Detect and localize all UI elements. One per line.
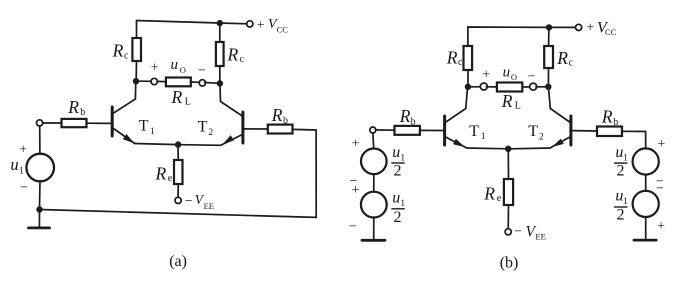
svg-text:2: 2: [208, 128, 213, 138]
transistor T1 (a) emitter lead: [113, 128, 135, 144]
svg-text:R: R: [271, 105, 283, 125]
svg-text:u: u: [392, 190, 400, 207]
source u1/2 upper right (b): [633, 148, 659, 174]
resistor RL (b): [497, 83, 522, 92]
svg-text:L: L: [185, 97, 191, 108]
svg-text:u: u: [503, 64, 511, 80]
wire: base T2 to Rb right (a): [244, 128, 268, 130]
wire: tail node to Re (b): [507, 152, 509, 179]
svg-text:u: u: [392, 144, 400, 161]
resistor Re (a): [174, 160, 183, 184]
transistor T2 (b) base bar: [569, 116, 572, 145]
source u1 (a): [26, 154, 54, 182]
svg-text:c: c: [458, 57, 463, 68]
wire: Rc left to collector node (b): [467, 70, 469, 84]
svg-text:R: R: [399, 106, 411, 126]
source u1/2 lower left (b): [361, 192, 387, 218]
node: collector T1 (a) junction dot: [133, 78, 139, 84]
source u1/2 lower right (b): [633, 191, 659, 217]
supply terminal −VEE (a): [175, 197, 181, 203]
power terminal +VCC (a): [247, 21, 253, 27]
power terminal +VCC (b): [576, 24, 582, 30]
svg-text:2: 2: [617, 163, 625, 180]
transistor T2 (a) base bar: [241, 112, 244, 143]
svg-text:−: −: [656, 182, 664, 197]
wire: terminal to Rb left (b): [376, 129, 395, 131]
svg-text:e: e: [168, 173, 173, 184]
svg-text:R: R: [501, 91, 513, 111]
svg-text:+: +: [657, 219, 665, 234]
svg-text:R: R: [171, 87, 183, 107]
svg-text:CC: CC: [277, 24, 289, 34]
output terminal + (a): [151, 78, 157, 84]
output terminal − (a): [199, 80, 205, 86]
svg-text:(b): (b): [500, 255, 519, 272]
svg-text:T: T: [139, 117, 149, 134]
svg-text:T: T: [198, 118, 208, 135]
wire: Rb left to base T1 (a): [87, 122, 111, 124]
svg-text:+: +: [586, 20, 594, 35]
transistor T1 (b) emitter lead: [445, 137, 466, 148]
svg-text:EE: EE: [535, 231, 545, 241]
svg-text:c: c: [124, 50, 129, 61]
svg-text:O: O: [180, 65, 186, 75]
svg-text:T: T: [469, 123, 479, 140]
svg-text:e: e: [497, 193, 502, 204]
wire: (a) bottom rail: [40, 210, 317, 218]
wire: + terminal to RL (a): [157, 80, 166, 82]
wire: between left sources (b): [373, 174, 375, 192]
svg-text:CC: CC: [605, 27, 617, 37]
svg-text:c: c: [569, 58, 574, 69]
resistor RL (a): [166, 78, 191, 87]
node: collector T1 (b) junction dot: [465, 84, 471, 90]
junction dot at top of Rc right (b): [546, 24, 552, 30]
wire: collector node to + output terminal (a): [139, 80, 152, 82]
resistor Rc right (a): [216, 42, 224, 66]
transistor T2 (a) emitter lead: [221, 135, 243, 146]
wire: − terminal to collector node T2 (b): [536, 86, 546, 88]
wire: Re to −VEE terminal (a): [177, 184, 179, 197]
wire: terminal down to source stack left (b): [372, 133, 375, 149]
svg-text:EE: EE: [204, 201, 214, 211]
transistor T2 (b) collector lead: [549, 90, 571, 123]
supply terminal −VEE (b): [505, 229, 511, 235]
resistor Re (b): [504, 179, 513, 205]
wire: base T2 to Rb right (b): [572, 130, 597, 132]
ground (b right): [634, 239, 656, 242]
svg-text:2: 2: [394, 163, 402, 180]
resistor Rc left (b): [464, 46, 473, 70]
svg-text:−: −: [198, 64, 206, 79]
transistor T1 (b) collector lead: [445, 90, 467, 123]
wire: top of Rc right (b): [548, 28, 550, 47]
svg-text:b: b: [613, 117, 618, 128]
svg-text:−: −: [514, 225, 522, 240]
wire: Rb left to base T1 (b): [420, 129, 443, 131]
wire: top of Rc right (a): [219, 23, 221, 42]
wire: Rc left to collector node (a): [135, 61, 137, 78]
wire: collector node to + terminal (b): [471, 86, 481, 88]
svg-text:R: R: [112, 41, 124, 61]
svg-text:+: +: [19, 143, 27, 158]
svg-text:R: R: [67, 97, 79, 117]
svg-text:R: R: [556, 48, 568, 68]
transistor T1 (b) base bar: [443, 116, 446, 145]
transistor T1 (a) collector lead: [113, 84, 136, 113]
svg-text:O: O: [511, 72, 517, 82]
svg-text:R: R: [227, 44, 239, 64]
wire: + terminal to RL (b): [486, 86, 497, 88]
wire: input terminal down to source u1 (a): [39, 126, 41, 154]
svg-text:u: u: [10, 155, 18, 174]
transistor T2 (b) emitter arrow: [552, 139, 564, 147]
svg-text:(a): (a): [169, 253, 187, 270]
svg-text:+: +: [352, 183, 360, 198]
output terminal + (b): [480, 83, 487, 90]
svg-text:b: b: [80, 107, 85, 118]
svg-text:−: −: [349, 219, 357, 234]
node: collector T2 (b) junction dot: [545, 84, 551, 90]
wire: input terminal to Rb left (a): [43, 122, 62, 124]
resistor Rb left (a): [62, 119, 87, 127]
node: bottom junction dot (a): [36, 206, 42, 212]
svg-text:R: R: [483, 184, 495, 204]
svg-text:b: b: [283, 116, 288, 127]
svg-text:2: 2: [617, 206, 625, 223]
wire: emitter T2 to tail node (a): [181, 144, 221, 147]
resistor Rb left (b): [395, 126, 420, 135]
svg-text:+: +: [151, 61, 159, 76]
transistor T1 (a) base bar: [111, 107, 114, 136]
resistor Rc right (b): [544, 46, 553, 68]
svg-text:L: L: [515, 101, 521, 112]
svg-text:R: R: [155, 164, 167, 184]
resistor Rb right (b): [597, 127, 622, 137]
svg-text:+: +: [657, 137, 665, 152]
svg-text:b: b: [411, 116, 416, 127]
resistor Rb right (a): [268, 125, 293, 134]
transistor T1 (a) emitter arrow: [123, 134, 135, 143]
wire: lower source to ground (b right): [645, 217, 647, 239]
svg-text:−: −: [185, 194, 193, 209]
wire: between right sources (b): [645, 175, 647, 191]
svg-text:1: 1: [150, 127, 155, 137]
svg-text:2: 2: [539, 132, 544, 142]
svg-text:+: +: [257, 18, 265, 33]
wire: Rb right down the right side (a): [293, 129, 317, 217]
svg-text:T: T: [528, 123, 538, 140]
wire: Re to −VEE terminal (b): [507, 205, 509, 229]
svg-text:R: R: [601, 106, 613, 126]
input terminal left (b): [370, 127, 376, 133]
svg-text:R: R: [446, 48, 458, 68]
wire: emitter T1 to tail node (a): [135, 144, 178, 145]
ground (b left): [362, 239, 385, 242]
output terminal − (b): [530, 83, 537, 90]
svg-text:c: c: [240, 54, 245, 65]
node: tail junction dot (a): [175, 141, 181, 147]
source u1/2 upper left (b): [361, 149, 387, 175]
svg-text:1: 1: [400, 199, 405, 209]
wire: (a) top rail: [137, 21, 247, 39]
transistor T2 (b) emitter lead: [550, 137, 570, 148]
wire: RL to − terminal (a): [191, 81, 199, 83]
wire: Rc right to collector node (b): [547, 68, 549, 84]
svg-text:u: u: [171, 57, 179, 73]
wire: tail node to Re (a): [177, 148, 179, 161]
junction dot at top of Rc right (a): [217, 20, 223, 26]
node: collector T2 (a) junction dot: [217, 80, 223, 86]
svg-text:+: +: [352, 136, 360, 151]
wire: emitter T1 to tail node (b): [466, 147, 508, 150]
svg-text:1: 1: [481, 132, 486, 142]
wire: Rb right to source stack right (b): [622, 131, 646, 148]
svg-text:+: +: [482, 68, 490, 83]
svg-text:−: −: [528, 70, 536, 85]
ground (a): [38, 212, 40, 227]
wire: (b) top rail: [468, 27, 576, 46]
transistor T2 (a) emitter arrow: [222, 135, 234, 144]
wire: − terminal to collector node T2 (a): [205, 82, 218, 85]
node: tail junction dot (b): [505, 146, 511, 152]
svg-text:1: 1: [19, 167, 24, 177]
resistor Rc left (a): [132, 38, 141, 61]
wire: source u1 to bottom node (a): [39, 181, 42, 206]
wire: lower source to ground (b left): [373, 218, 375, 240]
transistor T2 (a) collector lead: [220, 86, 242, 116]
wire: Rc right to collector node (a): [219, 66, 221, 81]
wire: emitter T2 to tail node (b): [511, 147, 550, 150]
wire: RL to − terminal (b): [522, 86, 530, 88]
svg-text:2: 2: [394, 209, 402, 226]
input terminal (a): [37, 120, 43, 126]
svg-text:−: −: [20, 181, 28, 196]
transistor T1 (b) emitter arrow: [453, 139, 465, 147]
